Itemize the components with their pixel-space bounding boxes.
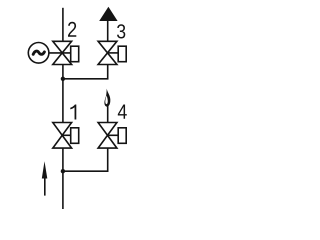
label 4 (118, 105, 127, 119)
valve V2 bowtie (53, 41, 72, 64)
AC sine symbol inside circle (33, 51, 44, 54)
arrow inlet flow (bottom) (42, 161, 48, 195)
actuator rect V2 (71, 46, 79, 62)
wire stub V1 to actuator (63, 134, 71, 136)
node junction upper (61, 77, 65, 81)
node junction lower (61, 169, 65, 173)
wire pilot pipe above valve 4 (107, 106, 109, 123)
wire stub V3 to actuator (108, 52, 119, 54)
arrow burner outlet (filled, top) (99, 7, 117, 21)
valve V3 bowtie (98, 41, 117, 64)
wire stub V4 to actuator (108, 134, 119, 136)
wire burner pipe above valve 3 (107, 20, 109, 41)
label 1 (70, 105, 76, 120)
valve V4 bowtie (98, 123, 117, 149)
actuator rect V4 (118, 128, 126, 144)
AC source circle (28, 43, 49, 64)
wire upper branch: riser and horizontal link to node (63, 65, 108, 79)
wire AC source to valve V2 center and actuator stub (49, 52, 71, 54)
wire main left pipe middle segment (62, 65, 64, 123)
flame pilot symbol (104, 89, 110, 107)
valve V1 bowtie (53, 123, 72, 149)
label 2 (68, 22, 76, 37)
actuator rect V3 (118, 46, 126, 62)
wire main left pipe top segment (62, 8, 64, 42)
wire lower branch: riser and horizontal link to node (63, 148, 108, 171)
actuator rect V1 (71, 128, 79, 144)
label 3 (117, 24, 125, 38)
wire main left pipe bottom segment (62, 148, 64, 209)
